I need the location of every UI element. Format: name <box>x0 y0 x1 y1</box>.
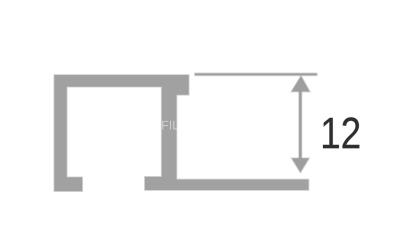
dimension label 12 <box>323 117 359 148</box>
arrowhead up <box>292 76 310 91</box>
arrowhead down <box>292 158 309 172</box>
profile cross-section body <box>54 75 308 191</box>
dimension extension line <box>195 73 317 75</box>
dimension arrow shaft <box>299 91 301 159</box>
watermark FIL on stem <box>162 121 179 130</box>
